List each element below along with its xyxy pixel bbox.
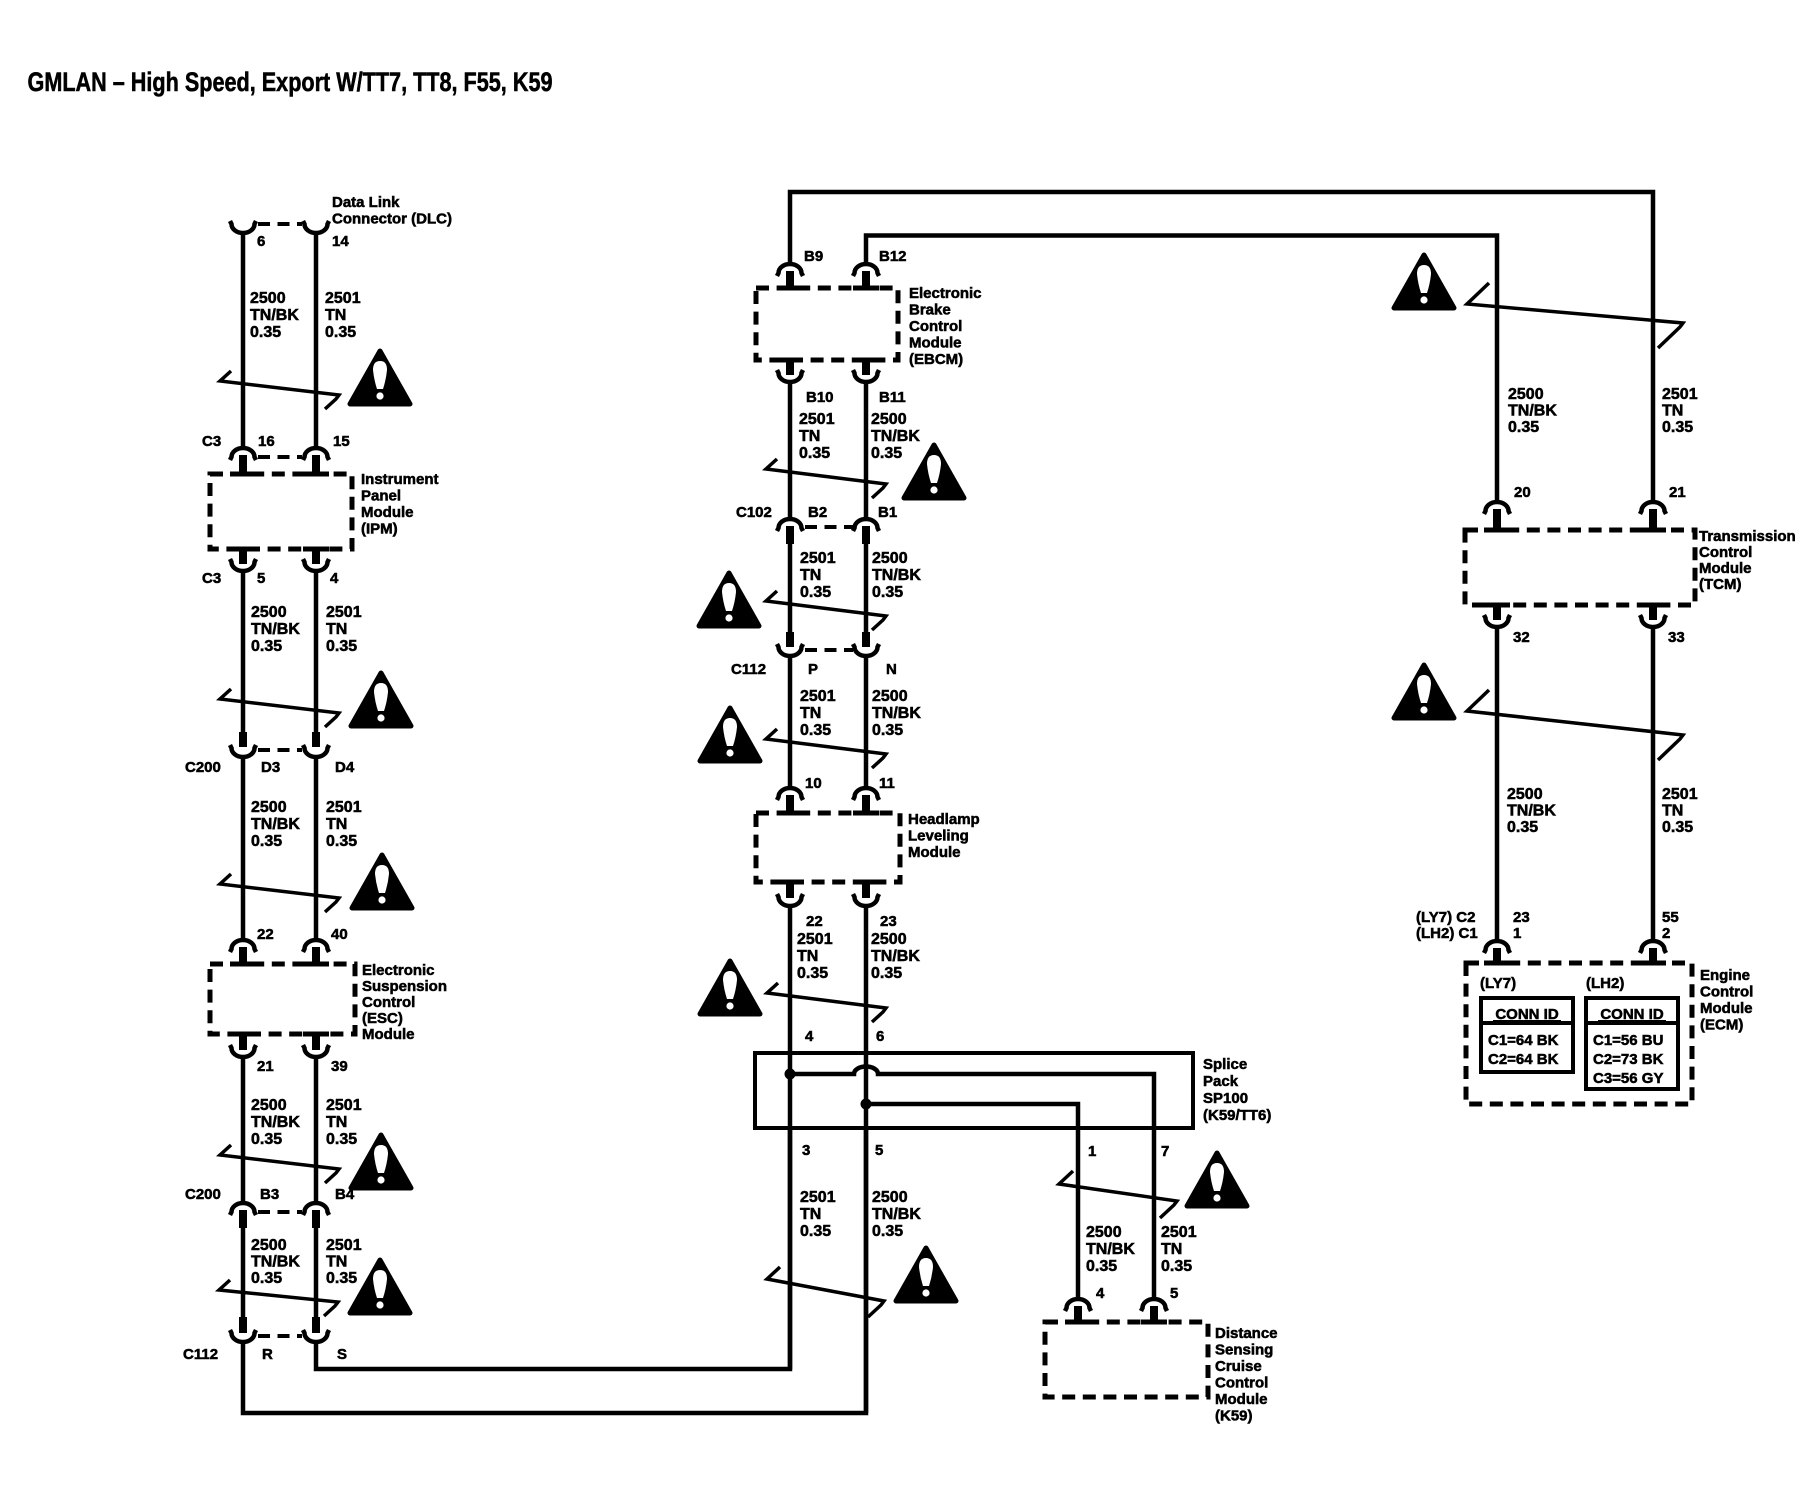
svg-text:(ECM): (ECM) — [1700, 1017, 1743, 1034]
svg-text:Suspension: Suspension — [362, 978, 447, 995]
connector C200 pinD4 terminal — [312, 732, 320, 747]
connector ESC pin21 terminal — [239, 1036, 247, 1050]
svg-text:2500: 2500 — [251, 604, 287, 621]
svg-text:C102: C102 — [736, 504, 772, 521]
wire 2501 TN ESC to C200B — [314, 1059, 319, 1202]
svg-text:2500: 2500 — [1508, 386, 1544, 403]
connector ECM pin2 terminal — [1640, 941, 1666, 953]
svg-text:TN: TN — [326, 1254, 347, 1271]
svg-text:TN/BK: TN/BK — [871, 428, 920, 445]
svg-text:D3: D3 — [261, 759, 280, 776]
connector ESC pin40 terminal — [303, 940, 329, 952]
connector C3 mating face top — [258, 455, 302, 459]
svg-text:2: 2 — [1662, 925, 1670, 942]
svg-text:Pack: Pack — [1203, 1073, 1239, 1090]
connector C200 pinD3 terminal — [239, 732, 247, 747]
svg-text:0.35: 0.35 — [797, 965, 828, 982]
off-page marker msegC — [766, 729, 886, 768]
svg-text:2500: 2500 — [872, 1189, 908, 1206]
svg-text:2501: 2501 — [797, 931, 833, 948]
svg-text:21: 21 — [257, 1058, 274, 1075]
svg-text:Module: Module — [1699, 560, 1752, 577]
svg-text:Module: Module — [362, 1026, 415, 1043]
connector C200 mating face B — [258, 1210, 302, 1214]
svg-text:(K59/TT6): (K59/TT6) — [1203, 1107, 1271, 1124]
warning triangle 4 — [351, 1135, 411, 1188]
svg-text:(LH2) C1: (LH2) C1 — [1416, 925, 1478, 942]
svg-text:2500: 2500 — [250, 290, 286, 307]
wire 2500 TN/BK C200 to ESC — [241, 758, 246, 938]
svg-text:55: 55 — [1662, 909, 1679, 926]
svg-text:2501: 2501 — [1662, 786, 1698, 803]
svg-text:(LY7): (LY7) — [1480, 975, 1516, 992]
svg-text:4: 4 — [805, 1028, 814, 1045]
connector EBCM pinB12 terminal — [853, 264, 879, 276]
svg-text:C2=64 BK: C2=64 BK — [1488, 1051, 1559, 1068]
svg-text:0.35: 0.35 — [251, 638, 282, 655]
svg-text:2500: 2500 — [871, 931, 907, 948]
connector C102 mating face — [805, 525, 853, 529]
connector C112 pinS terminal — [312, 1317, 320, 1333]
svg-text:0.35: 0.35 — [250, 324, 281, 341]
svg-text:C112: C112 — [183, 1346, 218, 1363]
svg-text:40: 40 — [331, 926, 348, 943]
svg-text:R: R — [262, 1346, 273, 1363]
wire 2501 TN TCM to ECM — [1651, 629, 1656, 939]
off-page marker seg5 left — [219, 1280, 338, 1316]
connector C3 pin5 terminal — [239, 551, 247, 564]
warning triangle M5 — [896, 1248, 956, 1301]
svg-text:0.35: 0.35 — [799, 445, 830, 462]
wire 2501 TN C112 to HLM — [788, 658, 793, 786]
svg-text:10: 10 — [805, 775, 822, 792]
conn id table LY7 — [1481, 998, 1573, 1072]
wire 2500 TN/BK HLM to SP100 — [864, 908, 869, 1106]
svg-text:0.35: 0.35 — [1662, 819, 1693, 836]
svg-text:2500: 2500 — [872, 688, 908, 705]
svg-text:B1: B1 — [878, 504, 897, 521]
svg-text:Module: Module — [1700, 1000, 1753, 1017]
svg-text:Module: Module — [1215, 1391, 1268, 1408]
wire R to splice SP100 pin5 — [243, 1128, 866, 1413]
connector DLC pin 6 terminal — [230, 221, 256, 233]
svg-text:0.35: 0.35 — [871, 965, 902, 982]
wire 2500 TN/BK IPM to C200 — [241, 572, 246, 733]
svg-text:15: 15 — [333, 433, 350, 450]
svg-text:TN: TN — [326, 816, 347, 833]
connector HLM pin11 terminal — [853, 788, 879, 800]
wire 2500 TN/BK TCM to ECM — [1495, 629, 1500, 939]
connector EBCM pinB9 terminal — [777, 264, 803, 276]
svg-text:22: 22 — [257, 926, 274, 943]
svg-text:TN/BK: TN/BK — [251, 621, 300, 638]
svg-text:Control: Control — [1700, 984, 1753, 1001]
svg-text:7: 7 — [1161, 1143, 1169, 1160]
svg-text:2500: 2500 — [251, 1097, 287, 1114]
svg-text:TN/BK: TN/BK — [872, 567, 921, 584]
warning triangle M6 — [1187, 1153, 1247, 1206]
svg-text:0.35: 0.35 — [872, 1223, 903, 1240]
off-page marker seg3 left — [220, 874, 339, 912]
svg-text:Connector (DLC): Connector (DLC) — [332, 211, 452, 228]
svg-text:TN/BK: TN/BK — [251, 1114, 300, 1131]
wire 2501 TN EBCM to C102 — [788, 384, 793, 517]
svg-text:2501: 2501 — [800, 1189, 836, 1206]
off-page marker msegA — [766, 459, 886, 498]
svg-text:TN: TN — [1662, 803, 1683, 820]
svg-text:5: 5 — [1170, 1285, 1178, 1302]
connector HLM pin22 terminal — [786, 884, 794, 898]
svg-text:(LY7) C2: (LY7) C2 — [1416, 909, 1475, 926]
svg-text:0.35: 0.35 — [251, 1270, 282, 1287]
svg-text:B12: B12 — [879, 248, 907, 265]
svg-text:14: 14 — [332, 233, 349, 250]
warning triangle 3 — [352, 855, 412, 908]
svg-text:Instrument: Instrument — [361, 471, 439, 488]
svg-text:0.35: 0.35 — [326, 638, 357, 655]
svg-text:2500: 2500 — [1086, 1224, 1122, 1241]
svg-text:Distance: Distance — [1215, 1325, 1278, 1342]
svg-text:0.35: 0.35 — [326, 833, 357, 850]
svg-text:TN: TN — [800, 567, 821, 584]
svg-text:N: N — [886, 661, 897, 678]
wire S to splice SP100 pin3 — [316, 1128, 790, 1369]
wire 2501 TN DLC to IPM — [314, 234, 319, 446]
svg-text:2500: 2500 — [251, 1237, 287, 1254]
svg-text:Electronic: Electronic — [909, 285, 982, 302]
warning triangle M1 — [904, 445, 964, 498]
svg-text:Control: Control — [1215, 1375, 1268, 1392]
module DSCC box — [1045, 1322, 1208, 1397]
connector ECM pin1 terminal — [1484, 941, 1510, 953]
svg-text:2501: 2501 — [1161, 1224, 1197, 1241]
svg-text:TN/BK: TN/BK — [250, 307, 299, 324]
svg-text:C200: C200 — [185, 1186, 221, 1203]
svg-text:P: P — [808, 661, 818, 678]
svg-text:32: 32 — [1513, 629, 1530, 646]
svg-text:SP100: SP100 — [1203, 1090, 1248, 1107]
svg-text:0.35: 0.35 — [251, 1131, 282, 1148]
svg-text:4: 4 — [1096, 1285, 1105, 1302]
wire EBCM B9 to TCM 21 top run — [790, 192, 1653, 500]
connector C3 pin4 terminal — [312, 551, 320, 564]
wire 2501 TN C102 to C112 — [788, 544, 793, 632]
svg-text:2501: 2501 — [799, 411, 835, 428]
svg-text:Headlamp: Headlamp — [908, 811, 980, 828]
svg-text:TN/BK: TN/BK — [871, 948, 920, 965]
svg-text:Leveling: Leveling — [908, 828, 969, 845]
svg-text:Module: Module — [908, 844, 961, 861]
warning triangle R1 — [1394, 255, 1454, 308]
svg-text:16: 16 — [258, 433, 275, 450]
svg-text:1: 1 — [1513, 925, 1521, 942]
svg-text:0.35: 0.35 — [325, 324, 356, 341]
connector HLM pin23 terminal — [862, 884, 870, 898]
off-page marker rsegA — [1467, 283, 1683, 348]
svg-text:0.35: 0.35 — [1508, 419, 1539, 436]
svg-text:5: 5 — [875, 1142, 883, 1159]
svg-text:Cruise: Cruise — [1215, 1358, 1262, 1375]
svg-text:B11: B11 — [879, 389, 906, 406]
svg-text:39: 39 — [331, 1058, 348, 1075]
warning triangle 5 — [350, 1260, 410, 1313]
wire 2501 TN IPM to C200 — [314, 572, 319, 733]
off-page marker msegB — [766, 591, 886, 630]
warning triangle M3 — [700, 708, 760, 761]
connector C112 mating face PN — [805, 648, 853, 652]
svg-text:5: 5 — [257, 570, 265, 587]
connector C102 pinB2 terminal — [777, 519, 803, 531]
connector DSCC pin5 terminal — [1141, 1299, 1167, 1311]
off-page marker seg2 left — [220, 689, 339, 727]
svg-text:TN: TN — [800, 1206, 821, 1223]
svg-text:B4: B4 — [335, 1186, 355, 1203]
svg-text:Module: Module — [909, 335, 962, 352]
wire 2500 TN/BK C200B to C112 — [241, 1228, 246, 1317]
svg-text:C112: C112 — [731, 661, 766, 678]
connector TCM pin20 terminal — [1484, 502, 1510, 514]
off-page marker seg1 left — [220, 371, 339, 409]
svg-text:33: 33 — [1668, 629, 1685, 646]
svg-text:0.35: 0.35 — [1161, 1258, 1192, 1275]
svg-text:6: 6 — [257, 233, 265, 250]
svg-text:2500: 2500 — [871, 411, 907, 428]
svg-text:1: 1 — [1088, 1143, 1096, 1160]
wire 2500 TN/BK DLC to IPM — [241, 234, 246, 446]
warning triangle M2 — [699, 573, 759, 626]
wire splice pin5 down — [864, 1106, 869, 1413]
connector ESC pin22 terminal — [230, 940, 256, 952]
svg-text:TN/BK: TN/BK — [1086, 1241, 1135, 1258]
off-page marker rsegB — [1467, 690, 1683, 760]
off-page marker seg4 left — [220, 1145, 339, 1183]
svg-text:GMLAN – High Speed, Export W/T: GMLAN – High Speed, Export W/TT7, TT8, F… — [28, 67, 553, 97]
svg-text:0.35: 0.35 — [1507, 819, 1538, 836]
connector ESC pin39 terminal — [312, 1036, 320, 1050]
svg-text:C200: C200 — [185, 759, 221, 776]
svg-text:(IPM): (IPM) — [361, 521, 398, 538]
svg-text:TN: TN — [799, 428, 820, 445]
connector TCM pin21 terminal — [1640, 502, 1666, 514]
connector EBCM pinB10 terminal — [786, 362, 794, 375]
svg-text:C2=73 BK: C2=73 BK — [1593, 1051, 1664, 1068]
svg-text:23: 23 — [880, 913, 897, 930]
svg-text:0.35: 0.35 — [326, 1131, 357, 1148]
svg-text:2501: 2501 — [800, 688, 836, 705]
svg-text:2501: 2501 — [326, 799, 362, 816]
wire 2500 TN/BK EBCM to C102 — [864, 384, 869, 517]
connector DLC mating face — [258, 222, 302, 226]
svg-text:0.35: 0.35 — [800, 722, 831, 739]
svg-text:2501: 2501 — [800, 550, 836, 567]
svg-text:Panel: Panel — [361, 488, 401, 505]
connector C3 pin15 terminal — [303, 448, 329, 460]
svg-text:B3: B3 — [260, 1186, 279, 1203]
wire EBCM B12 to TCM 20 run — [866, 236, 1497, 501]
junction dot splice pin6 — [861, 1099, 872, 1110]
svg-text:0.35: 0.35 — [251, 833, 282, 850]
svg-text:C1=56 BU: C1=56 BU — [1593, 1032, 1663, 1049]
svg-text:Sensing: Sensing — [1215, 1342, 1273, 1359]
svg-text:TN: TN — [1662, 403, 1683, 420]
svg-text:6: 6 — [876, 1028, 884, 1045]
svg-text:TN: TN — [797, 948, 818, 965]
svg-text:TN/BK: TN/BK — [251, 1254, 300, 1271]
svg-text:C3=56 GY: C3=56 GY — [1593, 1070, 1663, 1087]
svg-text:0.35: 0.35 — [871, 445, 902, 462]
svg-text:2500: 2500 — [251, 799, 287, 816]
warning triangle R2 — [1394, 665, 1454, 718]
warning triangle M4 — [700, 961, 760, 1014]
svg-text:0.35: 0.35 — [326, 1270, 357, 1287]
connector C200 pinB3 terminal — [230, 1203, 256, 1215]
module ESC box — [210, 964, 355, 1034]
wire 2501 TN C200 to ESC — [314, 758, 319, 938]
svg-text:TN: TN — [326, 621, 347, 638]
connector TCM pin33 terminal — [1649, 607, 1657, 620]
svg-text:2501: 2501 — [326, 1097, 362, 1114]
svg-text:Splice: Splice — [1203, 1056, 1247, 1073]
off-page marker msegE — [767, 1267, 884, 1317]
svg-text:TN/BK: TN/BK — [872, 1206, 921, 1223]
off-page marker msegD — [767, 983, 886, 1022]
svg-text:0.35: 0.35 — [800, 584, 831, 601]
connector C112 pinP terminal — [786, 632, 794, 647]
svg-text:Data Link: Data Link — [332, 194, 400, 211]
svg-text:Module: Module — [361, 504, 414, 521]
module EBCM box — [756, 288, 898, 360]
svg-text:2501: 2501 — [325, 290, 361, 307]
svg-text:C3: C3 — [202, 570, 221, 587]
svg-text:Engine: Engine — [1700, 967, 1750, 984]
svg-text:TN: TN — [800, 705, 821, 722]
svg-text:TN/BK: TN/BK — [251, 816, 300, 833]
conn id table LH2 — [1586, 998, 1678, 1089]
svg-text:21: 21 — [1669, 484, 1686, 501]
svg-text:TN/BK: TN/BK — [872, 705, 921, 722]
svg-text:B10: B10 — [806, 389, 834, 406]
connector C102 pinB1 terminal — [853, 519, 879, 531]
svg-text:(EBCM): (EBCM) — [909, 351, 963, 368]
connector C112 pinR terminal — [239, 1317, 247, 1333]
connector C112 mating face RS — [258, 1334, 302, 1338]
svg-text:0.35: 0.35 — [1662, 419, 1693, 436]
warning triangle 2 — [351, 673, 411, 726]
svg-text:TN/BK: TN/BK — [1508, 403, 1557, 420]
svg-text:(LH2): (LH2) — [1586, 975, 1624, 992]
connector C200 pinB4 terminal — [303, 1203, 329, 1215]
svg-text:23: 23 — [1513, 909, 1530, 926]
module HLM box — [756, 813, 900, 882]
svg-text:Electronic: Electronic — [362, 962, 435, 979]
module TCM box — [1465, 530, 1695, 605]
svg-text:S: S — [337, 1346, 347, 1363]
svg-text:Control: Control — [909, 318, 962, 335]
svg-text:2500: 2500 — [872, 550, 908, 567]
module ECM box — [1466, 963, 1692, 1104]
connector TCM pin32 terminal — [1493, 607, 1501, 620]
svg-text:0.35: 0.35 — [872, 584, 903, 601]
wire splice bus lower — [866, 1104, 1078, 1298]
splice pack SP100 box — [755, 1053, 1193, 1128]
connector EBCM pinB11 terminal — [862, 362, 870, 375]
svg-text:4: 4 — [330, 570, 339, 587]
svg-text:0.35: 0.35 — [1086, 1258, 1117, 1275]
wire 2501 TN HLM to SP100 — [788, 908, 793, 1076]
connector C3 pin16 terminal — [230, 448, 256, 460]
connector HLM pin10 terminal — [777, 788, 803, 800]
module IPM box — [210, 474, 352, 549]
svg-text:2501: 2501 — [326, 604, 362, 621]
wire 2500 TN/BK ESC to C200B — [241, 1059, 246, 1202]
svg-text:2501: 2501 — [1662, 386, 1698, 403]
junction dot splice pin4 — [785, 1069, 796, 1080]
svg-text:TN: TN — [326, 1114, 347, 1131]
svg-text:Transmission: Transmission — [1699, 528, 1796, 545]
svg-text:C1=64 BK: C1=64 BK — [1488, 1032, 1559, 1049]
wire 2501 TN C200B to C112 — [314, 1228, 319, 1317]
svg-text:0.35: 0.35 — [872, 722, 903, 739]
svg-text:Brake: Brake — [909, 302, 951, 319]
svg-text:TN/BK: TN/BK — [1507, 803, 1556, 820]
connector DLC pin 14 terminal — [303, 221, 329, 233]
off-page marker msegF — [1059, 1171, 1177, 1218]
svg-text:11: 11 — [879, 775, 895, 792]
svg-text:B9: B9 — [804, 248, 823, 265]
svg-text:2500: 2500 — [1507, 786, 1543, 803]
svg-text:C3: C3 — [202, 433, 221, 450]
connector C200 mating face D — [258, 748, 302, 752]
svg-text:22: 22 — [806, 913, 823, 930]
svg-text:(ESC): (ESC) — [362, 1010, 403, 1027]
svg-text:D4: D4 — [335, 759, 355, 776]
svg-text:20: 20 — [1514, 484, 1531, 501]
svg-text:Control: Control — [1699, 544, 1752, 561]
wire 2500 TN/BK C102 to C112 — [864, 544, 869, 632]
wire 2500 TN/BK C112 to HLM — [864, 658, 869, 786]
svg-text:B2: B2 — [808, 504, 827, 521]
svg-text:0.35: 0.35 — [800, 1223, 831, 1240]
svg-text:Control: Control — [362, 994, 415, 1011]
svg-text:TN: TN — [325, 307, 346, 324]
connector C112 pinN terminal — [862, 632, 870, 647]
svg-text:3: 3 — [802, 1142, 810, 1159]
svg-text:TN: TN — [1161, 1241, 1182, 1258]
wire splice bus upper with hop — [790, 1067, 1154, 1298]
connector DSCC pin4 terminal — [1065, 1299, 1091, 1311]
warning triangle 1 — [350, 351, 410, 404]
svg-text:(K59): (K59) — [1215, 1408, 1253, 1425]
wire splice pin3 down — [788, 1076, 793, 1369]
svg-text:(TCM): (TCM) — [1699, 576, 1741, 593]
svg-text:2501: 2501 — [326, 1237, 362, 1254]
